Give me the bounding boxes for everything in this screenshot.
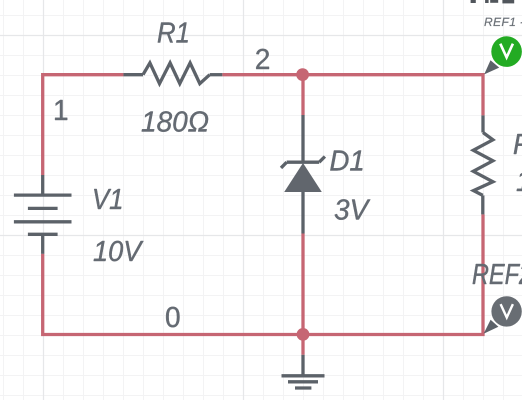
wire middle bottom segment	[301, 234, 304, 335]
junction node 0	[297, 328, 310, 341]
label R2 (clipped)	[514, 134, 522, 154]
probe REF2 V glyph	[501, 304, 513, 317]
label R1	[158, 23, 188, 43]
wire node0: left-bottom-right run	[43, 214, 483, 334]
node label 1	[55, 100, 67, 120]
resistor R2 (right, partially visible)	[473, 115, 493, 214]
wire node1: top-left corner	[43, 75, 124, 175]
value 3V	[335, 199, 371, 220]
junction node 2	[296, 68, 309, 81]
probe REF1 tail	[484, 60, 499, 74]
probe REF2 tail	[484, 320, 499, 334]
wire node2: middle stub down	[301, 73, 304, 115]
probe REF1 V glyph	[500, 44, 513, 58]
value 180 ohm	[142, 111, 208, 132]
node label 2	[256, 49, 269, 69]
probe REF2 (gray voltage probe)	[491, 296, 521, 326]
value R2 (clipped)	[517, 170, 522, 191]
probe REF1 (green voltage probe)	[491, 36, 522, 67]
node label 0	[166, 307, 179, 328]
diode D1 triangle	[284, 163, 322, 192]
title PRE (clipped at top)	[471, 0, 515, 3]
probe REF2 label (clipped)	[473, 264, 522, 284]
wire ground stub	[301, 335, 304, 355]
zener diode D1	[281, 115, 325, 234]
battery V1	[14, 175, 72, 254]
wire node2: top-right corner	[222, 75, 483, 116]
ground	[282, 355, 325, 388]
probe REF1 small label	[484, 18, 522, 26]
label V1	[94, 189, 121, 209]
label D1	[330, 151, 362, 171]
resistor R1	[123, 63, 222, 84]
value 10V	[94, 241, 144, 261]
